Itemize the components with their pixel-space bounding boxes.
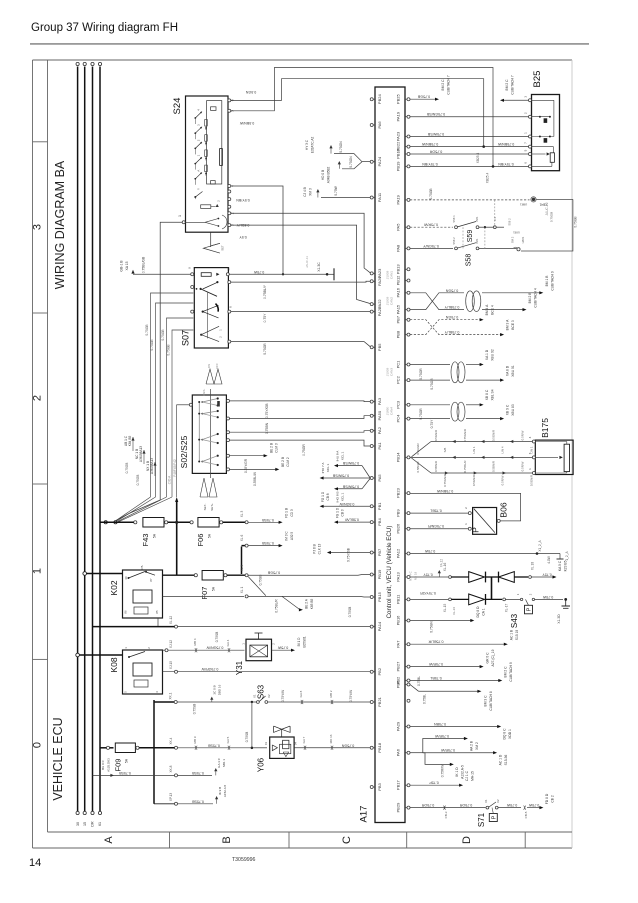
- wire S24 pin6 to B25 junction: [231, 79, 484, 147]
- svg-text:XL-15: XL-15: [443, 604, 447, 613]
- svg-text:VEHICLE ECU: VEHICLE ECU: [51, 717, 65, 800]
- svg-text:RES-: RES-: [202, 389, 206, 396]
- reference arrows above F43 junction: [132, 437, 134, 451]
- svg-text:CAN1: CAN1: [390, 271, 394, 280]
- svg-text:SB1 1: SB1 1: [222, 759, 226, 768]
- bus line 30: [77, 67, 79, 812]
- S07 internals: [201, 273, 211, 277]
- svg-text:CB-3: CB-3: [444, 811, 448, 818]
- svg-text:0.75Y: 0.75Y: [263, 313, 267, 323]
- A17 right pin PB29: [407, 806, 410, 809]
- svg-text:0.75BL: 0.75BL: [430, 509, 441, 513]
- svg-text:PA6: PA6: [377, 121, 382, 129]
- svg-text:61: 61: [98, 822, 102, 826]
- svg-text:PB11: PB11: [396, 594, 401, 604]
- A17 left pin PA1: [370, 445, 373, 448]
- svg-text:0.75Y/W: 0.75Y/W: [281, 690, 285, 702]
- svg-text:0.75W/SB: 0.75W/SB: [342, 484, 359, 488]
- svg-text:0.75Y/SB: 0.75Y/SB: [347, 547, 351, 562]
- A17 right pin PB25: [407, 98, 410, 101]
- svg-text:XCL 1: XCL 1: [326, 463, 330, 472]
- A17 right pin PC3: [407, 403, 410, 406]
- svg-text:PJ 8 B: PJ 8 B: [313, 544, 317, 553]
- svg-text:PB10: PB10: [396, 148, 401, 159]
- wire PB29 switch S71 row: [410, 807, 486, 809]
- svg-text:B81: B81: [475, 238, 479, 243]
- A17 right pin PA19: [407, 198, 410, 201]
- svg-text:XK.4: XK.4: [169, 737, 173, 744]
- svg-text:PB21: PB21: [377, 696, 382, 707]
- svg-text:A: A: [197, 170, 201, 172]
- svg-text:KA 0 C: KA 0 C: [558, 560, 562, 571]
- frame left zone strip: [47, 60, 49, 832]
- row XL12 to PA14: [175, 625, 178, 628]
- svg-text:0.75GB: 0.75GB: [550, 212, 554, 222]
- S02 right pin wires to A17: [227, 399, 230, 402]
- svg-text:0.75BL: 0.75BL: [422, 694, 426, 704]
- svg-text:PC3: PC3: [396, 400, 401, 409]
- A17 right pin PA5: [407, 226, 410, 229]
- svg-text:10: 10: [227, 267, 231, 271]
- svg-text:CUB/TACH 4: CUB/TACH 4: [534, 288, 538, 308]
- fuse F06: [198, 518, 219, 528]
- svg-text:0.5GN/R: 0.5GN/R: [492, 430, 496, 441]
- svg-text:0.75SB: 0.75SB: [119, 771, 131, 775]
- svg-text:0.75W: 0.75W: [528, 803, 539, 807]
- svg-text:CJ 4 B: CJ 4 B: [303, 187, 307, 197]
- svg-text:CUB/TACH 9: CUB/TACH 9: [509, 662, 513, 682]
- svg-text:0.75GR: 0.75GR: [302, 444, 306, 456]
- svg-text:PB29: PB29: [396, 802, 401, 813]
- svg-text:MD 16: MD 16: [329, 734, 333, 743]
- svg-text:BM 2 C: BM 2 C: [505, 79, 509, 91]
- fuse F07: [202, 571, 223, 581]
- svg-text:IHO 8 B: IHO 8 B: [336, 491, 340, 502]
- svg-text:CAN3: CAN3: [390, 368, 394, 377]
- wire S24 pin4 down to ground row: [231, 186, 283, 274]
- svg-text:0.35Y/GR: 0.35Y/GR: [244, 458, 248, 473]
- svg-text:CUB/TACH 7: CUB/TACH 7: [447, 75, 451, 95]
- svg-text:0.75Y: 0.75Y: [430, 419, 434, 428]
- svg-text:PB2: PB2: [377, 667, 382, 675]
- A17 left pin PA22: [370, 303, 373, 306]
- svg-text:0.75Y/GR: 0.75Y/GR: [420, 591, 436, 595]
- A17 left pin PB4: [370, 521, 373, 524]
- svg-text:0.75BL/R: 0.75BL/R: [428, 640, 443, 644]
- wire S24 pin1 long vertical: [116, 222, 182, 520]
- S07 left wire to GB arrow: [133, 273, 191, 275]
- svg-text:GA 8: GA 8: [299, 690, 303, 697]
- S24 bottom selector symbol: [210, 232, 212, 247]
- wire PA12 with X1_2_A: [410, 553, 560, 555]
- row XJ15 to PB2: [163, 671, 371, 673]
- A17 right pin PA19: [407, 115, 410, 118]
- svg-text:XA 1 D: XA 1 D: [485, 349, 489, 360]
- svg-text:0.75SB: 0.75SB: [208, 743, 220, 747]
- svg-text:K84 B5: K84 B5: [128, 436, 132, 447]
- svg-text:3: 3: [32, 224, 44, 230]
- diagonal XL5 to XL1: [248, 577, 266, 596]
- svg-text:BCE 3: BCE 3: [511, 320, 515, 330]
- wire PB9 to B06: [410, 512, 468, 514]
- svg-text:XL-16: XL-16: [443, 563, 447, 572]
- bundle arrow row1: [510, 440, 513, 443]
- svg-text:CB 2: CB 2: [551, 795, 555, 802]
- fuse F43: [143, 518, 164, 528]
- svg-text:A34B B5B2: A34B B5B2: [327, 167, 331, 184]
- S02 SET symbols below: [200, 478, 208, 497]
- svg-text:PA12: PA12: [396, 548, 401, 558]
- svg-text:0.5GN/W: 0.5GN/W: [339, 502, 354, 506]
- twisted pair symbol 1: [466, 291, 475, 312]
- svg-text:0.75BN: 0.75BN: [434, 722, 446, 726]
- svg-text:0.5BN/W: 0.5BN/W: [239, 121, 254, 125]
- svg-text:OFF: OFF: [215, 363, 219, 369]
- bundle arrow row3: [503, 471, 506, 474]
- svg-text:BI 1 D: BI 1 D: [297, 637, 301, 647]
- svg-text:XBU 83: XBU 83: [511, 404, 515, 416]
- svg-text:CJ 1 C: CJ 1 C: [465, 770, 469, 781]
- S02 pin1 wire arrow BE2B CLM2: [227, 468, 230, 471]
- wire K02 to XL1 row: [163, 595, 245, 597]
- relay K08: [123, 650, 163, 694]
- svg-text:1: 1: [178, 215, 182, 217]
- A17 left pin PA2: [370, 429, 373, 432]
- svg-text:5A: 5A: [125, 758, 129, 763]
- svg-text:CUB/TACH 7: CUB/TACH 7: [511, 75, 515, 95]
- svg-text:PB19: PB19: [377, 569, 382, 580]
- wire K02 85 down to XL12 row: [157, 618, 159, 627]
- svg-text:PA2: PA2: [377, 426, 382, 434]
- row XK1 and switch S63: [154, 701, 174, 703]
- switch S63: [257, 701, 260, 704]
- svg-text:CA 1: CA 1: [482, 608, 486, 615]
- svg-text:PB1: PB1: [377, 502, 382, 510]
- svg-text:Y: Y: [197, 188, 201, 190]
- svg-text:CD 3: CD 3: [290, 509, 294, 516]
- svg-text:PB16: PB16: [396, 615, 401, 626]
- svg-text:0.75GR: 0.75GR: [430, 378, 434, 390]
- svg-text:XL 1: XL 1: [240, 587, 244, 594]
- svg-text:01: 01: [264, 742, 268, 746]
- svg-text:F06: F06: [196, 534, 205, 547]
- svg-text:BE 2 B: BE 2 B: [270, 443, 274, 453]
- svg-text:0.75SB: 0.75SB: [262, 541, 274, 545]
- A17 left pin PA11: [370, 196, 373, 199]
- svg-text:D: D: [461, 836, 473, 844]
- svg-text:F48F45/F42: F48F45/F42: [173, 459, 177, 477]
- wire PB22 to B25 pin7 with junction: [410, 146, 528, 148]
- svg-text:0.75OR: 0.75OR: [419, 368, 423, 380]
- svg-text:5A: 5A: [208, 533, 212, 538]
- svg-text:0.75SB: 0.75SB: [348, 607, 352, 617]
- svg-text:S02/S25: S02/S25: [179, 435, 189, 468]
- svg-text:E05S01: E05S01: [303, 636, 307, 648]
- svg-text:0.75SB: 0.75SB: [215, 632, 219, 642]
- svg-text:X1_2_A: X1_2_A: [538, 539, 542, 551]
- A17 right pin PB6: [407, 683, 410, 686]
- wire PA5 fan to IHU IHD arrows: [338, 465, 363, 467]
- svg-text:SET+: SET+: [210, 503, 214, 511]
- svg-text:0.75GN/R: 0.75GN/R: [443, 474, 447, 487]
- svg-text:PB19: PB19: [396, 161, 401, 172]
- svg-text:0.5Y: 0.5Y: [239, 235, 247, 239]
- svg-text:0.5R/W: 0.5R/W: [520, 461, 524, 471]
- svg-text:0.75BL/R: 0.75BL/R: [463, 460, 467, 472]
- S24 pin 1 left: [182, 221, 185, 224]
- thick bus feed to XL12: [93, 626, 175, 628]
- svg-text:0.75W: 0.75W: [424, 549, 435, 553]
- svg-text:DR: DR: [91, 821, 95, 827]
- svg-text:0.75GN: 0.75GN: [349, 156, 353, 168]
- svg-text:IK 9 B: IK 9 B: [218, 787, 222, 795]
- svg-text:F09: F09: [114, 759, 123, 772]
- svg-text:DQ 8 D: DQ 8 D: [476, 606, 480, 618]
- svg-text:PB18: PB18: [377, 742, 382, 753]
- bus line 15: [84, 67, 86, 812]
- wire PB16 arrow DQ8D: [410, 620, 471, 622]
- svg-text:MB 2: MB 2: [329, 690, 333, 697]
- svg-text:CAN2: CAN2: [390, 297, 394, 306]
- svg-text:GB-1 B: GB-1 B: [120, 260, 124, 272]
- svg-text:CB 3: CB 3: [341, 509, 345, 516]
- svg-text:F43: F43: [141, 534, 150, 547]
- svg-text:IK 1 D: IK 1 D: [455, 767, 459, 777]
- svg-text:PB27: PB27: [396, 661, 401, 672]
- wire pair PC1 PC2 twisted: [410, 364, 450, 366]
- S24 bottom-right brace: [222, 215, 227, 229]
- svg-text:DBD 16: DBD 16: [218, 684, 222, 695]
- svg-text:0.75SB: 0.75SB: [245, 732, 249, 742]
- svg-text:PA1: PA1: [377, 442, 382, 450]
- diode refs row1: [438, 571, 440, 577]
- wire PA6 split AA2B AC1D IK1D: [410, 752, 423, 754]
- svg-text:XL 6: XL 6: [240, 535, 244, 542]
- svg-text:0.5GN/R: 0.5GN/R: [416, 443, 420, 454]
- S02 ON OFF symbol above: [206, 369, 214, 384]
- svg-text:PB7: PB7: [396, 315, 401, 323]
- svg-text:0.75GN/SB: 0.75GN/SB: [426, 112, 445, 116]
- svg-text:0.5BN/R: 0.5BN/R: [434, 461, 438, 472]
- CAN wire pair solid with crossover: [410, 293, 464, 310]
- switch module S02/S25: [192, 395, 226, 473]
- bundle arrow row3: [445, 471, 448, 474]
- svg-text:0.75Y/GB: 0.75Y/GB: [265, 403, 269, 418]
- svg-text:XBU 01: XBU 01: [511, 365, 515, 377]
- svg-text:Y06: Y06: [257, 757, 266, 772]
- svg-text:A36.B8A13: A36.B8A13: [139, 446, 143, 462]
- svg-text:S43: S43: [510, 613, 519, 628]
- svg-text:0.5GN/R: 0.5GN/R: [529, 475, 533, 486]
- svg-text:0.75Y/BN: 0.75Y/BN: [422, 162, 438, 166]
- svg-text:XDD 1: XDD 1: [508, 729, 512, 739]
- solenoid valve Y31: [246, 639, 272, 661]
- S02 pin6 wire arrow BE2B CLM3: [227, 454, 230, 457]
- svg-text:XL 5: XL 5: [240, 565, 244, 572]
- svg-text:14: 14: [29, 857, 41, 869]
- svg-text:Group 37 Wiring diagram FH: Group 37 Wiring diagram FH: [31, 22, 178, 34]
- A17 right pin PB2: [407, 679, 410, 682]
- svg-text:U881: U881: [520, 202, 528, 206]
- wire Y06 to PB18: [294, 747, 370, 749]
- svg-text:0.75Y/BN: 0.75Y/BN: [498, 162, 514, 166]
- svg-text:85: 85: [155, 610, 159, 614]
- A17 right pin PA23: [407, 135, 410, 138]
- S24 inner sub-box: [207, 101, 222, 184]
- switch module S24: [186, 96, 229, 232]
- harness fan to B175: [412, 442, 432, 457]
- svg-text:PA21: PA21: [377, 306, 382, 316]
- svg-text:Control unit, VECU (Vehicle EC: Control unit, VECU (Vehicle ECU): [386, 526, 393, 619]
- bundle arrow row3: [474, 471, 477, 474]
- svg-text:JAUC-12: JAUC-12: [545, 202, 549, 215]
- svg-text:FD 8 D: FD 8 D: [545, 793, 549, 804]
- svg-text:PA19: PA19: [396, 111, 401, 121]
- svg-text:XCL 1: XCL 1: [341, 492, 345, 501]
- svg-text:0.75BL/R: 0.75BL/R: [275, 599, 279, 613]
- A17 left pin PA5: [370, 477, 373, 480]
- A17 right pin PB8: [407, 333, 410, 336]
- S07 pin wire to PB5: [228, 340, 231, 343]
- svg-text:0.75GN: 0.75GN: [339, 141, 343, 153]
- A17 right pin PB23: [407, 492, 410, 495]
- svg-text:0.75SB: 0.75SB: [262, 518, 274, 522]
- svg-text:0.5Y/BN: 0.5Y/BN: [236, 198, 250, 202]
- svg-text:0.75R/W: 0.75R/W: [434, 734, 449, 738]
- svg-text:B06: B06: [499, 502, 509, 517]
- svg-text:E32ATC.A2: E32ATC.A2: [311, 136, 315, 153]
- A17 left bare pin: [407, 699, 410, 702]
- svg-text:A27.(C)_19: A27.(C)_19: [491, 649, 495, 666]
- A17 left pin PA24: [370, 160, 373, 163]
- svg-text:A132.A-5: A132.A-5: [461, 765, 465, 779]
- svg-text:1: 1: [32, 568, 44, 574]
- svg-text:0.75BN/W: 0.75BN/W: [436, 489, 453, 493]
- S07 left pin bare: [191, 286, 194, 289]
- wire PA24 fan to HY3C HD0B: [334, 154, 370, 162]
- svg-text:X1.3D: X1.3D: [557, 614, 561, 624]
- svg-text:PB17: PB17: [396, 780, 401, 791]
- svg-text:86: 86: [124, 610, 128, 614]
- svg-text:0.75OR: 0.75OR: [459, 803, 472, 807]
- svg-text:0.75W: 0.75W: [277, 646, 288, 650]
- wire PB23 to B06 pin4: [410, 493, 521, 521]
- relay unit B25: [532, 95, 560, 171]
- svg-text:MA-15: MA-15: [471, 771, 475, 781]
- bundle arrow row2: [510, 456, 513, 459]
- svg-text:0.75GB: 0.75GB: [161, 329, 165, 341]
- svg-text:CLK 13: CLK 13: [318, 543, 322, 554]
- A17 left pin PA21: [370, 310, 373, 313]
- svg-text:0: 0: [32, 742, 44, 748]
- wire PB19 to B25 pin6 with junction: [410, 165, 528, 167]
- svg-text:87A: 87A: [140, 565, 144, 570]
- wire Y31 to BI1D arrow: [272, 649, 292, 651]
- svg-text:0.75GB: 0.75GB: [167, 344, 171, 356]
- svg-text:0.75GR/W: 0.75GR/W: [201, 667, 218, 671]
- A17 right pin PB9: [407, 512, 410, 515]
- svg-text:0.75W/SB: 0.75W/SB: [342, 461, 359, 465]
- svg-text:U881: U881: [513, 231, 520, 235]
- svg-text:XCL 1: XCL 1: [341, 451, 345, 460]
- wire S24 pin3 to PA22: [231, 225, 371, 304]
- S02 internals: [209, 389, 211, 478]
- B25 internal potentiometer: [532, 146, 554, 148]
- wire PB17 arrow CJ1C: [410, 784, 459, 786]
- svg-text:S71: S71: [477, 812, 486, 827]
- svg-text:PB6: PB6: [396, 680, 401, 688]
- svg-text:1_2_A: 1_2_A: [565, 551, 569, 561]
- svg-text:XM 2: XM 2: [475, 742, 479, 750]
- svg-text:0.75SB: 0.75SB: [192, 771, 204, 775]
- svg-text:PB3: PB3: [377, 782, 382, 790]
- svg-text:K23 B5: K23 B5: [564, 560, 568, 571]
- svg-text:0.75R/W: 0.75R/W: [428, 662, 443, 666]
- wire PB1 to FG1D: [323, 505, 370, 507]
- svg-text:0.75GB: 0.75GB: [125, 463, 129, 474]
- svg-text:PA15: PA15: [396, 304, 401, 314]
- svg-text:PB12: PB12: [396, 275, 401, 286]
- svg-text:A36.B8A13: A36.B8A13: [150, 458, 154, 474]
- svg-text:XBL S4: XBL S4: [491, 389, 495, 400]
- svg-text:S63: S63: [257, 684, 266, 699]
- bundle arrow row2: [481, 456, 484, 459]
- svg-text:4.0W: 4.0W: [547, 556, 551, 563]
- wire PB27 arrow GR0C: [410, 666, 480, 668]
- wire PB6 diagonal arrow BM3C: [410, 685, 419, 692]
- potentiometer unit B175: [535, 440, 573, 474]
- svg-text:PA5: PA5: [377, 474, 382, 482]
- S07 left wires down bundle 0.75GB: [151, 293, 194, 497]
- svg-text:NX 4 C: NX 4 C: [409, 570, 413, 581]
- svg-text:PB4: PB4: [377, 518, 382, 526]
- svg-text:0.75R/W: 0.75R/W: [423, 223, 438, 227]
- svg-text:PC2: PC2: [396, 375, 401, 384]
- svg-text:A32 5: A32 5: [290, 532, 294, 541]
- svg-text:0.75GR: 0.75GR: [419, 408, 423, 420]
- B25 internal contacts: [532, 99, 554, 101]
- svg-text:0.75BL: 0.75BL: [430, 676, 441, 680]
- svg-text:IHU 8 A: IHU 8 A: [336, 450, 340, 462]
- svg-text:0.75OR: 0.75OR: [429, 150, 442, 154]
- switch S71: [486, 806, 489, 809]
- svg-text:0.75GR: 0.75GR: [263, 343, 267, 355]
- svg-text:BM 4 A: BM 4 A: [485, 304, 489, 315]
- A17 right pin PB13: [407, 268, 410, 271]
- svg-text:BM 2 B: BM 2 B: [528, 292, 532, 304]
- svg-text:BM 2 C: BM 2 C: [504, 666, 508, 678]
- svg-text:LIN 4: LIN 4: [501, 446, 505, 453]
- svg-text:ILA 3 C: ILA 3 C: [217, 757, 221, 768]
- svg-text:BCE 4: BCE 4: [491, 305, 495, 315]
- row XJ12 to Y31: [165, 649, 168, 652]
- svg-text:B: B: [221, 836, 233, 843]
- svg-text:0.75Y: 0.75Y: [423, 573, 433, 577]
- A17 left pin PB21: [370, 701, 373, 704]
- svg-text:JAUC-11: JAUC-11: [305, 256, 309, 268]
- svg-text:C: C: [341, 836, 353, 844]
- svg-text:0.75GN/Y: 0.75GN/Y: [423, 244, 439, 248]
- svg-text:WIRING DIAGRAM BA: WIRING DIAGRAM BA: [53, 160, 67, 289]
- thick riser with arrow C/O A: [176, 500, 178, 575]
- svg-text:K08: K08: [109, 657, 119, 672]
- svg-text:SET-: SET-: [203, 504, 207, 511]
- bus line DR: [92, 67, 94, 812]
- A17 left pin PA50: [370, 414, 373, 417]
- A17 right pin PB10: [407, 153, 410, 156]
- svg-text:S/B: S/B: [443, 448, 447, 453]
- A17 left pin PA14: [370, 625, 373, 628]
